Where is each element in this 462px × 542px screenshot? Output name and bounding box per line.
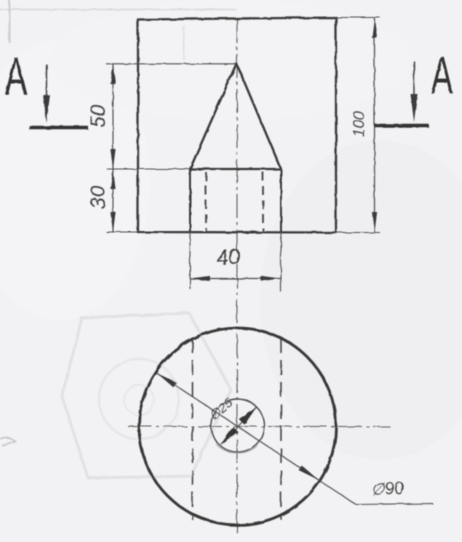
paper mottling: [260, 140, 462, 460]
ghost bleed-through: faint vertical mark: [183, 26, 185, 60]
front view: cone base line: [189, 168, 282, 170]
arrow up at apex level: [110, 64, 115, 84]
front view: right hole edge (solid): [280, 169, 282, 232]
d25 dimension line through inner circle: [221, 407, 257, 444]
top view: inner circle d25: [211, 399, 264, 452]
extension line bottom right: [336, 232, 380, 234]
arrow up top: [372, 18, 377, 39]
d25 arrow lower-left: [218, 427, 238, 447]
d90 arrow lower-right: [299, 465, 320, 482]
d90 arrow upper-left: [155, 371, 176, 388]
front view: cone triangle right side: [237, 64, 282, 170]
arrow right: [261, 276, 281, 281]
arrow up from below base level: [110, 169, 115, 189]
top view: inner circle double-drawn bottom arc: [216, 444, 259, 453]
d90 diameter dimension line: [157, 373, 319, 480]
vertical axis centerline (both views): [236, 19, 238, 537]
ghost pencil scribble left edge: [0, 437, 15, 446]
d25 arrow upper-right: [239, 404, 259, 424]
top view: projection dash line right: [280, 338, 282, 520]
svg-text:40: 40: [216, 245, 241, 270]
dimension line 100 (right): [374, 18, 376, 233]
front view: cone triangle left side: [190, 64, 237, 170]
top view: projection dash line left: [192, 338, 194, 520]
front view: hidden line right: [262, 172, 264, 231]
extension line at cone base level: [106, 168, 189, 170]
arrow down bottom: [372, 212, 377, 233]
d90 leader horizontal: [356, 504, 433, 505]
extension line top right: [336, 17, 380, 19]
extension line bottom left: [106, 231, 138, 233]
arrow down at bottom: [110, 212, 115, 232]
ghost bleed-through: circle: [99, 359, 179, 439]
section plane thick stroke (right): [374, 124, 429, 128]
extension line below right hole edge: [280, 232, 282, 292]
arrow left: [190, 276, 210, 281]
svg-text:100: 100: [351, 111, 368, 137]
dimension line 50/30 (left): [112, 64, 114, 232]
extension line at apex level: [106, 63, 236, 65]
svg-text:50: 50: [87, 104, 110, 128]
svg-text:∅90: ∅90: [370, 479, 404, 499]
d90 leader diagonal: [319, 480, 357, 505]
ghost bleed-through: top-left vertical line: [9, 0, 11, 43]
svg-text:A: A: [5, 47, 27, 106]
svg-text:30: 30: [87, 185, 110, 209]
svg-text:A: A: [431, 46, 453, 105]
front view: left hole edge (solid): [189, 169, 191, 232]
ghost bleed-through: hexagon: [62, 313, 231, 478]
front view: cylinder outline rectangle: [138, 18, 336, 233]
arrow down to base level: [110, 149, 115, 169]
ghost bleed-through: small circle: [124, 385, 154, 415]
section arrow line (left): [46, 64, 48, 112]
dimension line 40 (bottom): [190, 278, 281, 280]
top view: outer circle d90: [139, 328, 336, 525]
ghost bleed-through: top horizontal line: [0, 9, 236, 11]
front view: hidden line left: [205, 172, 207, 231]
section arrow line (right): [413, 61, 415, 111]
extension line below left hole edge: [189, 232, 191, 289]
top view: horizontal centerline: [128, 426, 390, 428]
section arrowhead (right): [411, 94, 418, 122]
section arrowhead (left): [43, 95, 50, 123]
section plane thick stroke (left): [29, 126, 88, 130]
